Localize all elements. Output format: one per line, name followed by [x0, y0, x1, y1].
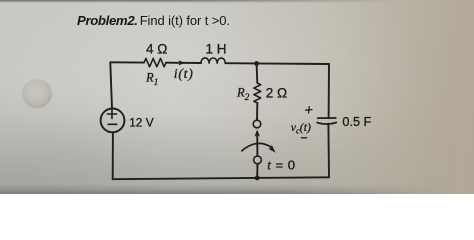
svg-text:R2: R2: [236, 86, 250, 104]
svg-text:0.5 F: 0.5 F: [342, 115, 371, 129]
svg-text:1 H: 1 H: [206, 42, 227, 57]
svg-text:i(t): i(t): [174, 67, 194, 82]
svg-text:4 Ω: 4 Ω: [146, 41, 167, 56]
svg-text:12 V: 12 V: [129, 115, 154, 129]
svg-text:vc(t): vc(t): [291, 120, 311, 135]
svg-text:R1: R1: [145, 71, 158, 89]
svg-text:2 Ω: 2 Ω: [266, 85, 287, 100]
svg-text:t = 0: t = 0: [267, 158, 295, 173]
